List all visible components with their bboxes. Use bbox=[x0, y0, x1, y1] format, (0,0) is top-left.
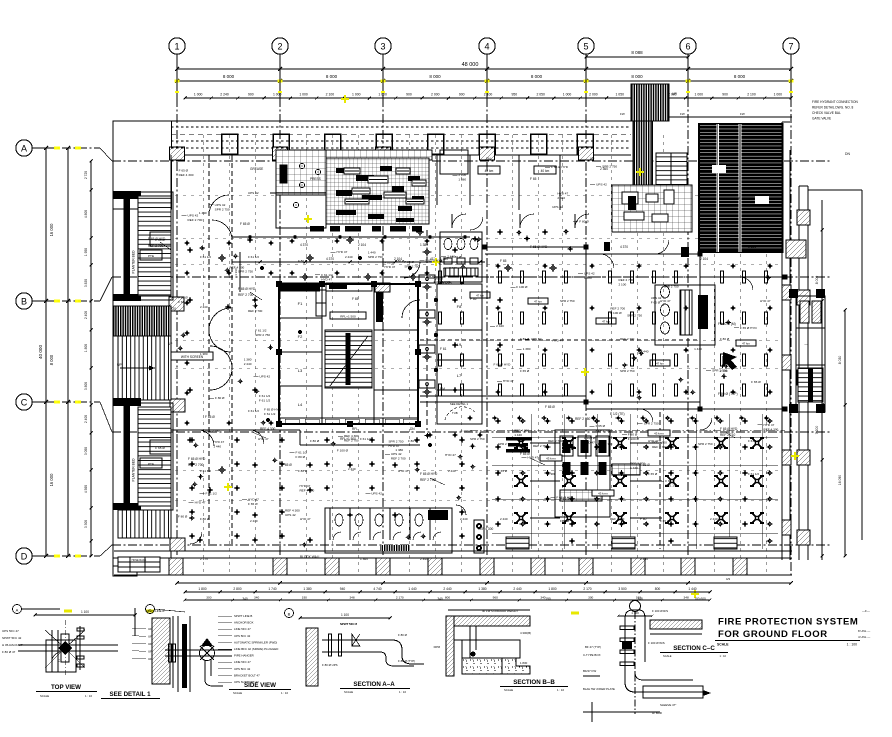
hall label cluster bbox=[506, 437, 532, 440]
right outer skin column bbox=[797, 290, 810, 305]
svg-text:1 380: 1 380 bbox=[458, 178, 466, 182]
grid line 5 leader bbox=[585, 54, 587, 98]
svg-text:7: 7 bbox=[788, 42, 793, 52]
svg-text:F 80 Ø 47: F 80 Ø 47 bbox=[2, 650, 16, 654]
core stair label bbox=[330, 312, 366, 319]
hall small labels bbox=[528, 298, 548, 304]
svg-text:F 80: F 80 bbox=[640, 517, 647, 521]
svg-text:F 65 Ø: F 65 Ø bbox=[596, 424, 606, 428]
plus mark bbox=[268, 346, 274, 348]
svg-text:2 720: 2 720 bbox=[84, 171, 88, 179]
svg-text:GATE VALVE: GATE VALVE bbox=[812, 117, 831, 121]
svg-text:1 100: 1 100 bbox=[341, 613, 349, 617]
door arc near toilets bbox=[456, 505, 466, 515]
plan leader lines bbox=[160, 242, 171, 250]
hall top plus row bbox=[467, 417, 472, 419]
svg-text:HYD 47: HYD 47 bbox=[195, 500, 206, 504]
svg-text:UPS 42: UPS 42 bbox=[552, 205, 563, 209]
svg-text:RFL: RFL bbox=[352, 427, 358, 431]
left dimension line outer bbox=[45, 148, 47, 556]
svg-text:1 800: 1 800 bbox=[198, 587, 206, 591]
svg-text:1 740: 1 740 bbox=[268, 587, 276, 591]
svg-text:UP: UP bbox=[590, 157, 594, 161]
svg-text:REF 2 700: REF 2 700 bbox=[188, 218, 203, 222]
hall dashed ceiling line bbox=[420, 276, 785, 278]
svg-text:AUTOMATIC SPRINKLER (FWD): AUTOMATIC SPRINKLER (FWD) bbox=[234, 640, 277, 644]
svg-text:2 170: 2 170 bbox=[200, 557, 208, 561]
detail marker circle C (side view) bbox=[146, 605, 155, 614]
escalator bottom black marks bbox=[644, 212, 651, 221]
top view box outline bbox=[46, 640, 76, 672]
svg-text:REF 2 700: REF 2 700 bbox=[596, 429, 611, 433]
section B-B wall left bbox=[446, 616, 454, 676]
servery crosshatch region right bbox=[612, 185, 692, 232]
svg-text:F 65: F 65 bbox=[530, 177, 537, 181]
sprinkler connector lines bbox=[530, 442, 560, 444]
svg-text:40 FW STANDARD WEIGHT: 40 FW STANDARD WEIGHT bbox=[482, 609, 518, 613]
grid bubble 3 bbox=[375, 38, 391, 54]
svg-text:2 050: 2 050 bbox=[536, 93, 545, 97]
svg-text:1 800: 1 800 bbox=[548, 587, 556, 591]
title underline bbox=[715, 640, 860, 642]
svg-text:1 000: 1 000 bbox=[299, 93, 308, 97]
plus mark bbox=[470, 466, 476, 468]
svg-text:SPR 2 750: SPR 2 750 bbox=[620, 369, 635, 373]
stair footprint below bottom wall left bbox=[113, 558, 137, 576]
plus mark bbox=[254, 390, 260, 392]
svg-text:HYD 47: HYD 47 bbox=[660, 299, 671, 303]
svg-text:F8: F8 bbox=[457, 304, 462, 309]
svg-text:F 61 1/2: F 61 1/2 bbox=[748, 472, 759, 476]
section A-A ground hatch bbox=[306, 628, 318, 686]
svg-text:F 65: F 65 bbox=[470, 297, 477, 301]
plus mark bbox=[690, 391, 696, 393]
svg-text:340: 340 bbox=[437, 597, 443, 601]
svg-text:1 440: 1 440 bbox=[640, 557, 648, 561]
dark roof hatched block bbox=[699, 124, 783, 252]
sprinkler X units row 2 bbox=[516, 476, 526, 486]
svg-text:SPR 2 750: SPR 2 750 bbox=[698, 442, 713, 446]
kitchen equipment bbox=[406, 199, 424, 204]
bottom wall columns bbox=[169, 558, 183, 575]
grid line C (horizontal dash-dot) bbox=[46, 401, 100, 403]
top wall grid column x=487 bbox=[480, 147, 495, 160]
top wall dashed lines bbox=[171, 126, 631, 128]
svg-text:SCALE: SCALE bbox=[40, 694, 49, 698]
svg-text:8 000: 8 000 bbox=[223, 74, 235, 79]
right outer skin column bbox=[797, 530, 810, 545]
svg-text:H² BAR: H² BAR bbox=[652, 711, 662, 715]
grid line D (horizontal dash-dot) bbox=[46, 555, 100, 557]
svg-text:1 380: 1 380 bbox=[478, 587, 486, 591]
top wall column bbox=[325, 134, 341, 154]
grid line 4 leader bbox=[486, 54, 488, 98]
svg-text:348: 348 bbox=[349, 596, 354, 600]
svg-text:2 000: 2 000 bbox=[589, 93, 598, 97]
hall divider wall 2 bbox=[699, 254, 701, 409]
svg-text:HYD 47: HYD 47 bbox=[384, 265, 395, 269]
svg-text:SPR 2 750: SPR 2 750 bbox=[470, 437, 485, 441]
svg-text:47 km: 47 km bbox=[476, 294, 484, 298]
svg-text:F 80 Ø: F 80 Ø bbox=[178, 296, 188, 300]
svg-text:1 : 100: 1 : 100 bbox=[847, 643, 857, 647]
building top wall outer bbox=[171, 120, 631, 122]
svg-text:F 65 Ø: F 65 Ø bbox=[545, 405, 555, 409]
svg-text:F 61 1/2: F 61 1/2 bbox=[264, 412, 276, 416]
core right shafts bbox=[373, 284, 375, 424]
top view small arc bbox=[52, 652, 60, 660]
side view valve cluster bbox=[200, 646, 215, 661]
servery equipment bbox=[622, 192, 638, 204]
svg-text:SCALE: SCALE bbox=[717, 643, 729, 647]
section C-C left pipe stub bbox=[583, 675, 600, 677]
bottom sub dimension line and texts bbox=[185, 591, 710, 593]
svg-text:SPWT 5FC 8: SPWT 5FC 8 bbox=[340, 622, 357, 626]
plus mark bbox=[405, 536, 411, 538]
svg-text:2 104: 2 104 bbox=[700, 257, 708, 261]
grid bubble 4 bbox=[479, 38, 495, 54]
svg-text:2 170: 2 170 bbox=[583, 587, 591, 591]
grid bubble 5 bbox=[578, 38, 594, 54]
svg-text:2 440: 2 440 bbox=[500, 517, 508, 521]
grid table right of fixtures bbox=[612, 464, 640, 475]
right side stair annex bbox=[796, 296, 825, 412]
svg-text:40 000: 40 000 bbox=[38, 345, 43, 359]
bottom plinth line bbox=[114, 574, 792, 576]
svg-text:2 440: 2 440 bbox=[345, 255, 353, 259]
building top wall inner (dashed) bbox=[171, 133, 631, 135]
svg-text:2: 2 bbox=[277, 42, 282, 52]
toilet black fixtures bbox=[428, 510, 448, 520]
svg-text:4/3: 4/3 bbox=[726, 577, 731, 581]
section B-B steps bbox=[502, 658, 530, 674]
plus mark bbox=[678, 379, 684, 381]
svg-text:3 830: 3 830 bbox=[84, 279, 88, 287]
svg-text:F 65 Ø: F 65 Ø bbox=[155, 446, 165, 450]
svg-text:FW: FW bbox=[680, 112, 685, 116]
svg-text:2 440: 2 440 bbox=[447, 254, 455, 258]
svg-text:LINE 5FC 47: LINE 5FC 47 bbox=[234, 660, 251, 664]
kitchen equipment bbox=[352, 188, 370, 194]
svg-text:4 370: 4 370 bbox=[326, 257, 334, 261]
svg-text:1 440: 1 440 bbox=[514, 433, 522, 437]
svg-text:RM: RM bbox=[440, 387, 445, 391]
svg-text:SPWT 5FC 42: SPWT 5FC 42 bbox=[2, 636, 22, 640]
svg-text:CHECK VALVE BAL: CHECK VALVE BAL bbox=[812, 111, 841, 115]
svg-text:43 k-rm: 43 k-rm bbox=[654, 432, 664, 436]
svg-text:L4: L4 bbox=[298, 402, 303, 407]
svg-text:900: 900 bbox=[248, 93, 254, 97]
svg-text:8 000: 8 000 bbox=[49, 354, 54, 365]
plus mark bbox=[524, 237, 530, 239]
stair next to escalator bbox=[656, 153, 687, 211]
svg-text:UPS 42: UPS 42 bbox=[596, 182, 607, 186]
svg-text:1 440: 1 440 bbox=[199, 211, 207, 215]
svg-text:1 360: 1 360 bbox=[360, 557, 368, 561]
hall interior ticks bbox=[439, 271, 442, 283]
hall bottom wall right bbox=[586, 408, 785, 410]
svg-text:UP: UP bbox=[117, 363, 122, 367]
svg-text:300: 300 bbox=[206, 596, 211, 600]
svg-text:F 61 1/2: F 61 1/2 bbox=[200, 255, 211, 259]
svg-text:2 440: 2 440 bbox=[710, 517, 718, 521]
svg-text:REF 2 700: REF 2 700 bbox=[420, 478, 435, 482]
plus mark bbox=[238, 380, 244, 382]
hall top wall far right bbox=[700, 276, 785, 278]
svg-text:F 80 Ø: F 80 Ø bbox=[398, 633, 408, 637]
svg-text:F 80 Ø (TYP): F 80 Ø (TYP) bbox=[718, 392, 738, 396]
grid bubble 2 bbox=[272, 38, 288, 54]
plus mark bbox=[225, 306, 231, 308]
svg-text:UPS 42: UPS 42 bbox=[215, 203, 226, 207]
svg-text:REF 2 700: REF 2 700 bbox=[652, 440, 667, 444]
svg-text:LINE 5FC 47: LINE 5FC 47 bbox=[234, 627, 251, 631]
svg-text:SCALE: SCALE bbox=[344, 690, 353, 694]
svg-text:1 440: 1 440 bbox=[408, 587, 416, 591]
svg-text:REF 4 300: REF 4 300 bbox=[344, 434, 359, 438]
top wall column bbox=[479, 134, 495, 154]
top wall column bbox=[222, 134, 238, 154]
grid bubble 6 bbox=[680, 38, 696, 54]
svg-text:F 61 1/2: F 61 1/2 bbox=[200, 469, 211, 473]
right outer skin column bbox=[797, 210, 810, 225]
label WITH SCREEN bbox=[171, 352, 213, 360]
plus grid lower-left room bbox=[189, 439, 195, 441]
plus mark bbox=[224, 269, 230, 271]
grid line D leader bbox=[32, 555, 46, 557]
stair tower 1 landing blocks bbox=[150, 232, 171, 246]
svg-text:REF 2 700: REF 2 700 bbox=[205, 429, 220, 433]
hall ceiling grid verticals bbox=[530, 414, 532, 549]
top view vertical pipe bbox=[51, 630, 53, 672]
svg-text:8 000: 8 000 bbox=[734, 74, 746, 79]
svg-text:2 100: 2 100 bbox=[326, 93, 335, 97]
svg-text:2 000: 2 000 bbox=[431, 93, 440, 97]
plus mark bbox=[414, 469, 420, 471]
svg-text:5: 5 bbox=[583, 42, 588, 52]
right exterior wall bbox=[781, 122, 783, 560]
kitchen room line bbox=[270, 192, 326, 194]
svg-text:TUB: TUB bbox=[452, 411, 458, 415]
svg-text:L9: L9 bbox=[457, 342, 462, 347]
svg-text:PLANTER BED: PLANTER BED bbox=[132, 250, 136, 274]
top-middle room labels bbox=[478, 166, 500, 174]
kitchen grease trap circles bbox=[299, 163, 304, 168]
svg-text:F 100 Ø: F 100 Ø bbox=[461, 429, 473, 433]
svg-text:SPR 2 750: SPR 2 750 bbox=[712, 368, 727, 372]
top-middle room door arcs bbox=[452, 214, 466, 228]
svg-text:REF 2 700: REF 2 700 bbox=[598, 442, 613, 446]
svg-text:PIPE HANGER: PIPE HANGER bbox=[234, 654, 254, 658]
plus mark bbox=[457, 456, 463, 458]
vertical dim near x240 bbox=[239, 252, 241, 292]
scattered dots bbox=[260, 266, 264, 270]
lower-left door arcs bbox=[198, 430, 214, 446]
svg-text:F 61 1/2: F 61 1/2 bbox=[178, 300, 190, 304]
svg-text:F 65 Ø HYD: F 65 Ø HYD bbox=[494, 362, 512, 366]
plus grid left zone bbox=[184, 242, 189, 244]
grid bubble B bbox=[16, 293, 32, 309]
svg-text:SCALE: SCALE bbox=[504, 688, 513, 692]
building top wall lower line bbox=[171, 154, 631, 156]
svg-text:UPS 42: UPS 42 bbox=[248, 191, 259, 195]
detail marker circle B (section A-A) bbox=[285, 609, 294, 618]
svg-text:SPR 2 750: SPR 2 750 bbox=[238, 270, 253, 274]
side view drop pipe bbox=[204, 660, 206, 680]
svg-text:SPR 2 750: SPR 2 750 bbox=[627, 313, 642, 317]
hall divider wall 1 bbox=[585, 247, 587, 402]
svg-text:950: 950 bbox=[512, 93, 518, 97]
hall wall junction blobs bbox=[584, 245, 589, 250]
side view wall hatch bbox=[152, 618, 170, 684]
svg-text:SPWT LINE B: SPWT LINE B bbox=[146, 609, 164, 613]
grid line 3 leader bbox=[382, 54, 384, 98]
top dimension line overall bbox=[177, 68, 791, 70]
dark bars near hall top wall bbox=[681, 247, 689, 257]
side view wall lines bbox=[172, 616, 174, 688]
scattered plus marks left zone bbox=[187, 249, 193, 251]
svg-text:HYD 47: HYD 47 bbox=[300, 517, 311, 521]
svg-text:UPS 42: UPS 42 bbox=[391, 452, 402, 456]
svg-text:F 65 Ø: F 65 Ø bbox=[498, 469, 508, 473]
svg-text:900: 900 bbox=[406, 93, 412, 97]
svg-text:F 65 Ø: F 65 Ø bbox=[560, 519, 570, 523]
pipe main line 1 bbox=[232, 236, 470, 238]
grid line 7 leader bbox=[790, 54, 792, 98]
plus mark bbox=[301, 544, 307, 546]
svg-text:SPWT LINE B: SPWT LINE B bbox=[234, 614, 252, 618]
svg-text:F 65 Ø: F 65 Ø bbox=[248, 502, 258, 506]
svg-text:4 UNL —: 4 UNL — bbox=[858, 635, 870, 639]
grid line B leader bbox=[32, 300, 46, 302]
second fixture group bbox=[555, 430, 610, 517]
hall interior dashed vertical bbox=[659, 412, 661, 549]
section C-C lower duct bbox=[643, 686, 703, 698]
top view cross leaders bbox=[45, 630, 65, 648]
detail marker circle D (section C-C) bbox=[630, 601, 641, 612]
svg-text:SPR 2 750: SPR 2 750 bbox=[498, 442, 513, 446]
plus mark bbox=[723, 365, 729, 367]
svg-text:1 000: 1 000 bbox=[563, 93, 572, 97]
svg-text:PRESS: PRESS bbox=[310, 177, 321, 181]
plus grid above core bbox=[289, 240, 294, 242]
top view dim line bbox=[35, 614, 135, 616]
open stair treads (mid-left) bbox=[118, 336, 171, 400]
svg-text:SPR 2 750: SPR 2 750 bbox=[404, 265, 419, 269]
svg-text:REF 2 700: REF 2 700 bbox=[630, 461, 645, 465]
grid line 1 leader bbox=[176, 54, 178, 98]
svg-text:F 65: F 65 bbox=[352, 297, 359, 301]
svg-text:F 80 Ø: F 80 Ø bbox=[404, 260, 414, 264]
plus mark bbox=[563, 231, 569, 233]
svg-text:HYD 47: HYD 47 bbox=[763, 423, 774, 427]
svg-text:1: 1 bbox=[174, 42, 179, 52]
svg-text:F 65 Ø HYD: F 65 Ø HYD bbox=[264, 408, 282, 412]
svg-text:800: 800 bbox=[655, 587, 661, 591]
servery equipment bbox=[624, 212, 644, 220]
upper-right FW line to edge bbox=[808, 189, 862, 191]
svg-text:4 300(B): 4 300(B) bbox=[520, 631, 531, 635]
entry vestibule dashed corridor bbox=[208, 155, 210, 545]
svg-text:1 : 10: 1 : 10 bbox=[720, 654, 727, 658]
svg-text:F 61 1/2: F 61 1/2 bbox=[255, 329, 267, 333]
svg-text:8 088: 8 088 bbox=[631, 50, 643, 55]
legend table bottom-left bbox=[118, 557, 160, 572]
svg-text:L7: L7 bbox=[457, 373, 462, 378]
top dimension sub line bbox=[185, 97, 791, 99]
top wall grid column x=177 bbox=[170, 147, 185, 160]
svg-text:UPS 42: UPS 42 bbox=[531, 337, 542, 341]
right outer skin column bbox=[797, 450, 810, 465]
svg-text:4 370: 4 370 bbox=[300, 243, 308, 247]
svg-text:REF 2 700: REF 2 700 bbox=[610, 307, 625, 311]
svg-text:4 590: 4 590 bbox=[84, 485, 88, 493]
svg-text:300: 300 bbox=[588, 596, 593, 600]
stair up arrow bbox=[120, 367, 155, 369]
svg-text:TOP VIEW: TOP VIEW bbox=[51, 684, 81, 691]
svg-text:2 440: 2 440 bbox=[496, 324, 504, 328]
core top equipment bbox=[316, 290, 326, 316]
grid line 2 (vertical dash-dot) bbox=[279, 98, 281, 578]
svg-text:F 65 Ø: F 65 Ø bbox=[520, 369, 530, 373]
plus mark bbox=[330, 443, 336, 445]
svg-text:UPS 42: UPS 42 bbox=[371, 491, 382, 495]
plus mark bbox=[178, 347, 184, 349]
svg-text:F 80 Ø: F 80 Ø bbox=[298, 259, 308, 263]
svg-text:2 440: 2 440 bbox=[443, 587, 451, 591]
svg-text:16 090: 16 090 bbox=[838, 475, 842, 485]
kitchen equipment bbox=[368, 176, 388, 183]
svg-text:348: 348 bbox=[684, 596, 689, 600]
sprinkler X units row 1 bbox=[516, 438, 526, 448]
svg-text:F 100 Ø: F 100 Ø bbox=[584, 436, 596, 440]
top wall column bbox=[273, 134, 289, 154]
svg-text:UPS 42: UPS 42 bbox=[651, 296, 662, 300]
yellow highlight crosses bbox=[304, 215, 312, 223]
svg-text:F 65 Ø: F 65 Ø bbox=[282, 463, 292, 467]
detail marker circle A (top view) bbox=[13, 605, 22, 614]
plus mark bbox=[636, 397, 642, 399]
svg-text:DN: DN bbox=[486, 157, 491, 161]
svg-text:2 170: 2 170 bbox=[396, 596, 404, 600]
svg-text:2 440: 2 440 bbox=[250, 519, 258, 523]
svg-text:HYD 47: HYD 47 bbox=[503, 379, 514, 383]
fixture group right (near grid 6) bbox=[655, 285, 715, 345]
central core outline bbox=[279, 284, 418, 424]
svg-text:SIDE VIEW: SIDE VIEW bbox=[244, 682, 276, 689]
hall dash-dot top line bbox=[470, 429, 785, 431]
svg-text:F 80 Ø: F 80 Ø bbox=[395, 259, 405, 263]
left dimension line inner bbox=[67, 148, 69, 556]
section A-A pipe run bbox=[322, 639, 392, 641]
corridor hose box bbox=[419, 380, 435, 388]
svg-text:1 050: 1 050 bbox=[615, 93, 624, 97]
grid line B (horizontal dash-dot) bbox=[46, 300, 100, 302]
plus mark bbox=[199, 247, 205, 249]
section C-C riser pipe bbox=[624, 618, 626, 682]
svg-text:HYD 47: HYD 47 bbox=[213, 440, 224, 444]
grid bubble 7 bbox=[783, 38, 799, 54]
plus mark bbox=[260, 422, 266, 424]
grid line 5 (vertical dash-dot) bbox=[585, 98, 587, 578]
svg-text:FIRE PROTECTION SYSTEM: FIRE PROTECTION SYSTEM bbox=[718, 617, 858, 628]
dark block inner labels bbox=[712, 165, 726, 173]
svg-text:F 80 Ø: F 80 Ø bbox=[298, 469, 308, 473]
plus mark bbox=[470, 445, 476, 447]
svg-text:F 65 Ø: F 65 Ø bbox=[665, 479, 675, 483]
svg-text:F 100 Ø R/S: F 100 Ø R/S bbox=[652, 609, 668, 613]
kitchen lower room outline bbox=[276, 195, 326, 228]
